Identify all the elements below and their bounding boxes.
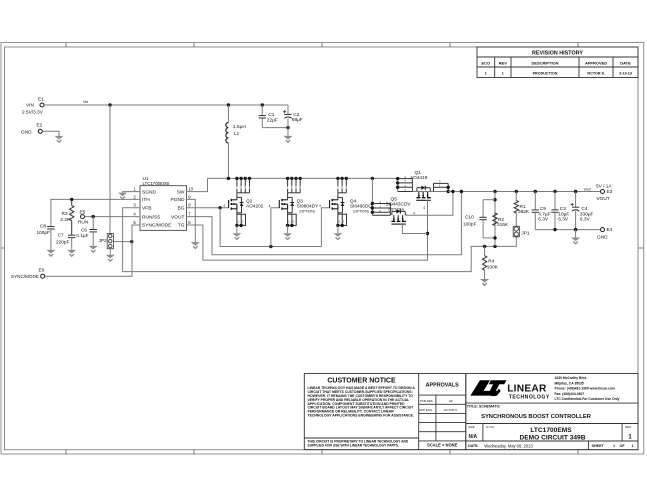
title block	[304, 374, 638, 450]
wire Q3 gate drop	[271, 208, 279, 247]
svg-text:330µF: 330µF	[580, 211, 594, 217]
svg-text:AO4419: AO4419	[410, 175, 428, 181]
svg-text:316K: 316K	[497, 222, 509, 228]
svg-text:LTC1700EMS: LTC1700EMS	[143, 181, 170, 186]
inductor L1 1.5uH	[227, 105, 229, 123]
terminal E4 GND	[601, 228, 605, 232]
svg-text:LINEAR: LINEAR	[507, 383, 547, 394]
svg-text:4: 4	[319, 204, 321, 208]
ground output	[575, 230, 577, 238]
svg-text:C6: C6	[81, 228, 87, 234]
svg-text:DESCRIPTION: DESCRIPTION	[532, 61, 559, 66]
svg-text:6.3V: 6.3V	[558, 217, 569, 223]
svg-text:1: 1	[485, 72, 487, 76]
svg-text:E3: E3	[607, 189, 613, 195]
svg-text:1: 1	[502, 72, 504, 76]
svg-text:JP1: JP1	[521, 230, 530, 236]
svg-text:C4: C4	[581, 206, 587, 212]
transistor Q4 SI6466DQ	[336, 177, 339, 180]
svg-text:4: 4	[423, 206, 425, 210]
svg-text:TECHNOLOGY: TECHNOLOGY	[509, 395, 550, 401]
svg-text:VIN: VIN	[26, 103, 34, 109]
svg-text:VOUT: VOUT	[171, 214, 184, 220]
capacitor C3 10uF	[554, 192, 556, 210]
svg-text:DEMO CIRCUIT 349B: DEMO CIRCUIT 349B	[520, 434, 586, 441]
wire VIN to JP2	[109, 105, 111, 234]
svg-text:4.7µF: 4.7µF	[538, 211, 550, 217]
resistor R4 100K	[484, 246, 486, 255]
svg-text:APPROVED: APPROVED	[585, 61, 607, 66]
svg-text:10µF: 10µF	[558, 211, 569, 217]
wire output ground bus	[535, 229, 600, 231]
svg-text:4: 4	[413, 211, 415, 215]
transistor Q5 SI9443CDV	[371, 177, 374, 180]
jumper JP2	[107, 234, 113, 249]
svg-text:(OPTION): (OPTION)	[353, 209, 368, 213]
ground PGND	[191, 242, 200, 246]
svg-text:(OPTION): (OPTION)	[299, 209, 314, 213]
svg-text:3-13-13: 3-13-13	[619, 72, 632, 76]
svg-text:100pF: 100pF	[463, 221, 477, 227]
svg-text:OF: OF	[620, 444, 626, 448]
ground SGND	[118, 193, 127, 197]
svg-text:1630 McCarthy Blvd.: 1630 McCarthy Blvd.	[555, 376, 588, 380]
wire Q5 gate	[402, 224, 427, 233]
svg-text:4: 4	[223, 204, 225, 208]
svg-text:VICTOR K.: VICTOR K.	[444, 408, 459, 412]
svg-text:2.2K: 2.2K	[60, 217, 71, 223]
svg-text:JP2: JP2	[99, 238, 108, 244]
svg-text:4: 4	[269, 204, 271, 208]
svg-text:TITLE: SCHEMATIC: TITLE: SCHEMATIC	[467, 405, 501, 409]
wire pin6 TG bus	[187, 225, 428, 260]
svg-text:L1: L1	[234, 131, 240, 137]
svg-text:Q4: Q4	[350, 198, 357, 204]
wire E2 to ground	[43, 131, 60, 136]
svg-text:RUN/SS: RUN/SS	[142, 214, 161, 220]
capacitor C6 0.1uF	[92, 217, 94, 230]
wire pin10 SW to rail	[187, 178, 208, 191]
ground JP2	[109, 249, 111, 255]
svg-text:LTC1700EMS: LTC1700EMS	[530, 427, 572, 434]
svg-text:C3: C3	[560, 206, 566, 212]
svg-text:APP ENG.: APP ENG.	[419, 408, 433, 412]
svg-text:ITH: ITH	[142, 197, 150, 203]
terminal E3 VOUT	[601, 190, 605, 194]
svg-text:E6: E6	[39, 268, 45, 274]
transistor Q3 SI9804DY	[286, 177, 289, 180]
svg-text:VFB: VFB	[142, 206, 151, 212]
svg-text:REV: REV	[499, 61, 507, 66]
svg-text:PRODUCTION: PRODUCTION	[533, 72, 558, 76]
svg-text:C1: C1	[268, 112, 274, 118]
svg-text:R4: R4	[488, 258, 494, 264]
svg-text:SIZE: SIZE	[468, 425, 474, 429]
svg-text:SUPPLIED FOR USE WITH LINEAR T: SUPPLIED FOR USE WITH LINEAR TECHNOLOGY …	[308, 444, 400, 448]
terminal E2 GND	[38, 129, 42, 133]
capacitor C7 220pF	[68, 234, 75, 236]
svg-text:TECHNOLOGY APPLICATIONS ENGINE: TECHNOLOGY APPLICATIONS ENGINEERING FOR …	[308, 414, 414, 418]
svg-text:SW: SW	[177, 189, 185, 195]
op-amp U1 LTC1700EMS	[140, 186, 187, 231]
svg-text:DATE:: DATE:	[468, 444, 479, 448]
svg-text:SYNCHRONOUS BOOST CONTROLLER: SYNCHRONOUS BOOST CONTROLLER	[481, 414, 592, 420]
ground C8	[46, 250, 55, 254]
svg-text:PCB DES.: PCB DES.	[420, 399, 434, 403]
wire pin8 BG gate bus	[187, 207, 229, 209]
svg-text:VOUT: VOUT	[597, 196, 610, 202]
terminal E1 VIN	[40, 103, 44, 107]
wire pin5 SYNC/MODE	[45, 225, 140, 276]
svg-text:Q1: Q1	[415, 170, 422, 176]
wire Q5 drain to VOUT rail	[405, 192, 453, 216]
svg-text:PGND: PGND	[171, 197, 185, 203]
ground C6	[89, 246, 98, 250]
svg-text:APPROVALS: APPROVALS	[426, 383, 460, 389]
svg-text:Q3: Q3	[297, 198, 304, 204]
resistor R1 392K	[515, 192, 517, 201]
capacitor C4 330uF	[575, 192, 577, 208]
svg-text:LTC Confidential-For Customer: LTC Confidential-For Customer Use Only	[555, 397, 620, 401]
svg-text:C8: C8	[40, 223, 46, 229]
svg-text:6.3V: 6.3V	[580, 217, 591, 223]
svg-text:N/A: N/A	[469, 434, 478, 440]
revision history table	[477, 47, 638, 78]
svg-text:1: 1	[613, 444, 615, 448]
svg-text:68µF: 68µF	[292, 117, 303, 123]
svg-text:SYNC/MODE: SYNC/MODE	[11, 274, 39, 279]
svg-text:GND: GND	[597, 235, 608, 241]
jumper JP1	[513, 226, 519, 237]
svg-text:Milpitas, CA 95035: Milpitas, CA 95035	[555, 381, 584, 385]
svg-text:2.5V/3.3V: 2.5V/3.3V	[22, 110, 44, 116]
svg-text:REV.: REV.	[625, 425, 632, 429]
resistor R2 316K	[493, 213, 497, 226]
svg-text:GND: GND	[21, 130, 32, 136]
svg-text:6.3V: 6.3V	[538, 217, 549, 223]
svg-text:Phone: (408)432-1900 www.li: Phone: (408)432-1900 www.linear.com	[555, 387, 615, 391]
svg-text:IC NO.: IC NO.	[486, 425, 495, 429]
svg-text:HZ: HZ	[449, 399, 453, 403]
Linear Technology logo	[470, 380, 506, 396]
wire Q1 gate	[427, 200, 429, 233]
wire Q4 gate drop	[321, 208, 329, 247]
svg-text:SCALE = NONE: SCALE = NONE	[427, 442, 458, 447]
capacitor C1 22uF	[261, 105, 263, 116]
capacitor C2 68uF	[287, 105, 289, 114]
svg-text:100pF: 100pF	[37, 230, 51, 236]
svg-text:22µF: 22µF	[267, 117, 278, 123]
capacitor C8 100pF	[47, 226, 54, 228]
svg-text:BG: BG	[178, 206, 185, 212]
svg-text:SGND: SGND	[142, 189, 156, 195]
svg-text:E4: E4	[607, 227, 613, 233]
wire SW rail	[208, 177, 398, 179]
svg-text:E5: E5	[80, 210, 86, 216]
resistor R3 2.2K	[71, 199, 73, 205]
svg-text:Vin: Vin	[83, 100, 88, 104]
svg-text:CUSTOMER NOTICE: CUSTOMER NOTICE	[327, 377, 396, 384]
svg-text:C7: C7	[58, 233, 64, 239]
svg-text:RUN: RUN	[78, 219, 89, 225]
svg-text:1: 1	[632, 444, 634, 448]
svg-text:R3: R3	[62, 211, 68, 217]
terminal E6 SYNC/MODE	[41, 274, 45, 278]
wire JP2 middle pin to SYNC/MODE net	[113, 241, 132, 243]
svg-text:5V / 1A: 5V / 1A	[596, 183, 612, 189]
svg-text:Fax: (408)434-0507: Fax: (408)434-0507	[555, 392, 585, 396]
svg-text:Vout: Vout	[584, 187, 592, 191]
svg-text:Wednesday, May 08, 2013: Wednesday, May 08, 2013	[484, 443, 533, 448]
wire Vin rail	[44, 104, 288, 106]
wire pin7 VOUT bus	[187, 192, 462, 255]
svg-text:220pF: 220pF	[56, 239, 70, 245]
ground R4	[480, 279, 489, 283]
svg-text:ECO: ECO	[482, 61, 491, 66]
ground C2	[287, 128, 289, 136]
capacitor C9 4.7uF	[534, 192, 536, 210]
ground C7	[67, 250, 76, 254]
svg-text:1.5µH: 1.5µH	[233, 124, 246, 130]
transistor Q1 AO4419	[397, 178, 399, 191]
capacitor C10 100pF	[494, 192, 496, 247]
svg-text:DATE: DATE	[620, 61, 631, 66]
terminal E5 RUN	[81, 215, 85, 219]
transistor Q2 AO4202	[235, 177, 238, 180]
svg-text:REVISION HISTORY: REVISION HISTORY	[532, 51, 583, 57]
wire pin1 SGND to ground	[123, 192, 140, 193]
svg-text:SHEET: SHEET	[592, 444, 605, 448]
wire pin4 RUN/SS	[85, 216, 140, 218]
wire pin2 ITH	[51, 199, 140, 226]
wire VOUT rail	[448, 191, 600, 193]
svg-text:VICTOR K.: VICTOR K.	[587, 72, 606, 76]
svg-text:E2: E2	[37, 123, 43, 129]
svg-text:100K: 100K	[487, 265, 499, 271]
svg-text:10: 10	[188, 187, 193, 192]
wire pin9 PGND to ground	[187, 199, 196, 242]
ground E2	[54, 136, 63, 140]
svg-text:Q2: Q2	[246, 198, 253, 204]
wire pin3 VFB net	[123, 208, 517, 272]
svg-text:C9: C9	[540, 206, 546, 212]
svg-text:(OPTION): (OPTION)	[389, 207, 404, 211]
svg-text:AO4202: AO4202	[246, 204, 264, 210]
svg-text:SYNC/MODE: SYNC/MODE	[142, 223, 172, 229]
wire C1-C2 bottom bar	[262, 127, 288, 129]
svg-text:392K: 392K	[518, 209, 530, 215]
svg-text:E1: E1	[38, 96, 44, 102]
svg-text:C10: C10	[465, 215, 474, 221]
svg-text:0.1µF: 0.1µF	[76, 233, 88, 239]
svg-text:TG: TG	[178, 223, 185, 229]
svg-text:Q5: Q5	[391, 196, 398, 202]
